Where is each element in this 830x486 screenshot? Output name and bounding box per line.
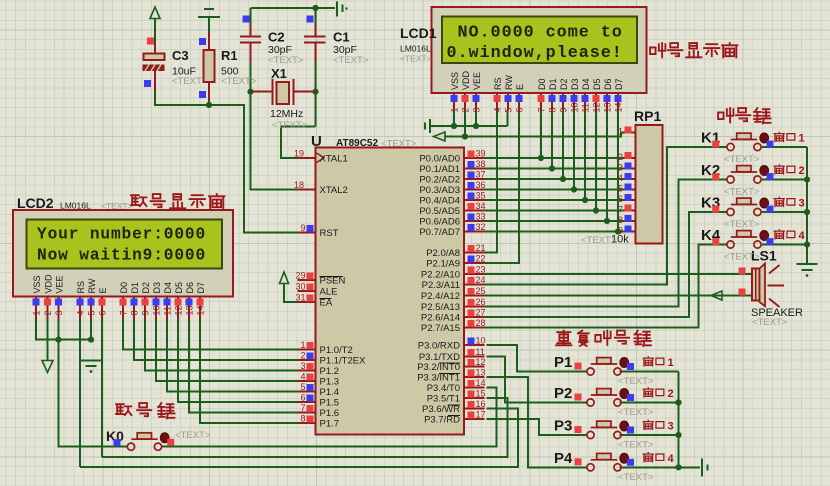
svg-text:D7: D7 [614, 78, 624, 90]
svg-text:13: 13 [185, 305, 195, 315]
svg-text:9: 9 [300, 223, 305, 233]
svg-text:<TEXT>: <TEXT> [101, 201, 133, 211]
svg-text:C1: C1 [333, 30, 350, 45]
svg-text:XTAL2: XTAL2 [320, 185, 348, 196]
svg-text:6: 6 [98, 310, 108, 315]
svg-text:AT89C52: AT89C52 [336, 138, 378, 149]
svg-text:P2.3/A11: P2.3/A11 [422, 280, 460, 291]
svg-text:1: 1 [799, 133, 805, 145]
svg-text:P0.4/AD4: P0.4/AD4 [419, 196, 460, 207]
svg-text:P1.5: P1.5 [320, 398, 340, 409]
svg-text:NO.0000 come to: NO.0000 come to [458, 24, 623, 43]
svg-text:D1: D1 [548, 78, 558, 90]
svg-text:P1.2: P1.2 [320, 366, 340, 377]
svg-text:22: 22 [476, 254, 486, 264]
svg-text:13: 13 [603, 102, 613, 112]
svg-text:P0.2/AD2: P0.2/AD2 [419, 175, 460, 186]
svg-text:11: 11 [581, 103, 591, 112]
svg-text:<TEXT>: <TEXT> [618, 472, 654, 483]
svg-text:1: 1 [668, 357, 674, 369]
svg-text:14: 14 [614, 102, 624, 112]
svg-text:EA: EA [320, 298, 333, 309]
svg-text:P2.0/A8: P2.0/A8 [426, 248, 460, 259]
svg-text:39: 39 [476, 149, 486, 159]
svg-text:10: 10 [152, 305, 162, 315]
svg-text:D6: D6 [603, 78, 613, 90]
svg-text:12MHz: 12MHz [270, 108, 303, 120]
svg-text:RS: RS [76, 281, 86, 294]
svg-text:9: 9 [559, 107, 569, 112]
svg-text:<TEXT>: <TEXT> [581, 235, 617, 246]
svg-text:4: 4 [300, 372, 305, 382]
svg-text:U: U [311, 133, 322, 150]
svg-text:P2.7/A15: P2.7/A15 [421, 323, 460, 334]
svg-text:28: 28 [476, 318, 486, 328]
svg-text:VDD: VDD [461, 70, 471, 90]
svg-text:11: 11 [476, 347, 485, 357]
svg-text:E: E [98, 287, 108, 293]
svg-text:LCD1: LCD1 [400, 25, 437, 41]
svg-text:P1.0/T2: P1.0/T2 [320, 345, 353, 356]
svg-text:P0.3/AD3: P0.3/AD3 [419, 185, 460, 196]
svg-text:P1.1/T2EX: P1.1/T2EX [320, 356, 367, 367]
svg-text:<TEXT>: <TEXT> [724, 219, 760, 230]
svg-text:D4: D4 [581, 78, 591, 90]
svg-text:0.window,please!: 0.window,please! [447, 44, 623, 63]
svg-text:25: 25 [476, 286, 486, 296]
svg-text:2: 2 [618, 152, 623, 162]
svg-text:3: 3 [799, 198, 805, 210]
svg-text:Your number:0000: Your number:0000 [37, 226, 206, 244]
svg-text:VEE: VEE [472, 72, 482, 90]
svg-text:31: 31 [295, 293, 305, 303]
svg-text:LCD2: LCD2 [17, 195, 54, 211]
svg-text:18: 18 [294, 180, 304, 190]
svg-text:<TEXT>: <TEXT> [268, 55, 304, 66]
svg-text:D4: D4 [163, 282, 173, 294]
svg-text:21: 21 [476, 243, 486, 253]
svg-text:<TEXT>: <TEXT> [381, 139, 417, 150]
svg-text:VSS: VSS [450, 72, 460, 90]
svg-text:7: 7 [300, 403, 305, 413]
svg-text:1: 1 [32, 310, 42, 315]
svg-text:P1.3: P1.3 [320, 377, 340, 388]
svg-text:4: 4 [799, 230, 806, 242]
svg-text:P1: P1 [554, 354, 572, 371]
svg-text:3: 3 [54, 310, 64, 315]
svg-text:D3: D3 [570, 78, 580, 90]
svg-text:P4: P4 [554, 450, 573, 467]
svg-text:P2.1/A9: P2.1/A9 [426, 259, 460, 270]
svg-text:Now waitin9:0000: Now waitin9:0000 [37, 247, 206, 265]
svg-text:D0: D0 [537, 78, 547, 90]
svg-text:<TEXT>: <TEXT> [618, 407, 654, 418]
svg-text:5: 5 [87, 310, 97, 315]
svg-text:<TEXT>: <TEXT> [221, 76, 257, 87]
svg-text:D5: D5 [174, 282, 184, 294]
svg-text:33: 33 [476, 212, 486, 222]
svg-text:12: 12 [592, 102, 602, 112]
svg-text:4: 4 [618, 173, 623, 183]
svg-text:29: 29 [295, 271, 305, 281]
svg-text:12: 12 [476, 357, 486, 367]
svg-text:P3.7/RD: P3.7/RD [424, 415, 460, 426]
svg-text:PSEN: PSEN [320, 276, 346, 287]
svg-text:36: 36 [476, 180, 486, 190]
svg-text:P1.6: P1.6 [320, 408, 340, 419]
svg-text:VEE: VEE [55, 275, 65, 293]
svg-text:10: 10 [570, 102, 580, 112]
svg-text:2: 2 [43, 310, 53, 315]
svg-text:<TEXT>: <TEXT> [618, 440, 654, 451]
svg-text:1: 1 [618, 127, 623, 137]
svg-text:14: 14 [196, 305, 206, 315]
svg-text:37: 37 [476, 170, 486, 180]
svg-text:LM016L: LM016L [400, 44, 431, 54]
svg-text:13: 13 [476, 368, 486, 378]
svg-text:6: 6 [618, 194, 623, 204]
svg-text:P2.6/A14: P2.6/A14 [421, 313, 460, 324]
svg-text:<TEXT>: <TEXT> [400, 54, 432, 64]
svg-text:P0.7/AD7: P0.7/AD7 [419, 227, 460, 238]
svg-text:D6: D6 [185, 282, 195, 294]
svg-text:2: 2 [300, 351, 305, 361]
svg-text:RS: RS [493, 77, 503, 90]
svg-text:P0.0/AD0: P0.0/AD0 [419, 154, 460, 165]
svg-text:D2: D2 [141, 282, 151, 294]
svg-text:30: 30 [295, 282, 305, 292]
svg-text:2: 2 [668, 388, 674, 400]
svg-text:P3.4/T0: P3.4/T0 [427, 383, 460, 394]
svg-text:19: 19 [294, 148, 304, 158]
svg-text:R1: R1 [221, 48, 238, 63]
svg-text:2: 2 [799, 165, 805, 177]
svg-text:RST: RST [320, 228, 339, 239]
svg-text:14: 14 [476, 378, 486, 388]
svg-text:7: 7 [119, 310, 129, 315]
svg-text:5: 5 [300, 382, 305, 392]
svg-text:16: 16 [476, 399, 486, 409]
svg-text:RP1: RP1 [634, 108, 661, 124]
svg-text:7: 7 [618, 205, 623, 215]
svg-text:3: 3 [300, 361, 305, 371]
svg-text:C3: C3 [172, 48, 189, 63]
svg-text:10: 10 [476, 336, 486, 346]
svg-text:1: 1 [450, 107, 460, 112]
svg-text:27: 27 [476, 308, 486, 318]
svg-text:D2: D2 [559, 78, 569, 90]
svg-text:8: 8 [130, 310, 140, 315]
svg-text:LM016L: LM016L [60, 201, 91, 211]
svg-text:D1: D1 [130, 282, 140, 294]
svg-text:XTAL1: XTAL1 [320, 153, 348, 164]
svg-text:35: 35 [476, 191, 486, 201]
svg-text:P3.2/INT0: P3.2/INT0 [417, 362, 460, 373]
svg-text:VSS: VSS [32, 275, 42, 293]
svg-text:3: 3 [668, 421, 674, 433]
svg-text:D7: D7 [196, 282, 206, 294]
svg-text:P2.2/A10: P2.2/A10 [421, 270, 460, 281]
svg-text:7: 7 [537, 107, 547, 112]
svg-text:2: 2 [461, 107, 471, 112]
svg-text:P0.6/AD6: P0.6/AD6 [419, 217, 460, 228]
svg-text:17: 17 [476, 410, 486, 420]
svg-text:D3: D3 [152, 282, 162, 294]
svg-text:C2: C2 [268, 30, 285, 45]
svg-text:P3.3/INT1: P3.3/INT1 [417, 373, 460, 384]
svg-text:8: 8 [548, 107, 558, 112]
svg-text:34: 34 [476, 201, 486, 211]
svg-text:P0.5/AD5: P0.5/AD5 [419, 206, 460, 217]
svg-text:P2.5/A13: P2.5/A13 [421, 302, 460, 313]
svg-text:P3.5/T1: P3.5/T1 [427, 394, 460, 405]
svg-text:<TEXT>: <TEXT> [618, 376, 654, 387]
svg-text:<TEXT>: <TEXT> [724, 252, 760, 263]
svg-text:6: 6 [515, 107, 525, 112]
svg-text:<TEXT>: <TEXT> [752, 317, 788, 328]
svg-text:P0.1/AD1: P0.1/AD1 [419, 164, 460, 175]
svg-text:4: 4 [76, 310, 86, 315]
svg-text:24: 24 [476, 275, 486, 285]
svg-text:E: E [515, 84, 525, 90]
svg-text:8: 8 [618, 215, 623, 225]
svg-text:9: 9 [141, 310, 151, 315]
svg-text:X1: X1 [271, 66, 287, 81]
svg-text:23: 23 [476, 265, 486, 275]
svg-text:P2: P2 [554, 385, 572, 402]
svg-text:RW: RW [87, 278, 97, 293]
svg-text:8: 8 [300, 414, 305, 424]
svg-text:P1.4: P1.4 [320, 387, 340, 398]
svg-text:5: 5 [618, 184, 623, 194]
svg-text:D0: D0 [119, 282, 129, 294]
svg-text:<TEXT>: <TEXT> [724, 187, 760, 198]
svg-text:1: 1 [300, 340, 305, 350]
svg-text:<TEXT>: <TEXT> [172, 76, 208, 87]
svg-text:11: 11 [163, 306, 173, 315]
svg-text:P3.6/WR: P3.6/WR [422, 404, 460, 415]
svg-text:<TEXT>: <TEXT> [333, 55, 369, 66]
svg-text:3: 3 [472, 107, 482, 112]
svg-text:38: 38 [476, 159, 486, 169]
svg-text:<TEXT>: <TEXT> [175, 430, 211, 441]
svg-text:P2.4/A12: P2.4/A12 [421, 291, 460, 302]
svg-text:<TEXT>: <TEXT> [724, 154, 760, 165]
svg-text:6: 6 [300, 393, 305, 403]
svg-text:26: 26 [476, 297, 486, 307]
svg-text:D5: D5 [592, 78, 602, 90]
svg-text:4: 4 [668, 453, 675, 465]
svg-text:15: 15 [476, 389, 486, 399]
svg-text:5: 5 [504, 107, 514, 112]
svg-text:VDD: VDD [44, 274, 54, 294]
svg-text:RW: RW [504, 75, 514, 90]
svg-text:ALE: ALE [320, 287, 338, 298]
svg-text:12: 12 [174, 305, 184, 315]
svg-text:32: 32 [476, 222, 486, 232]
svg-text:P1.7: P1.7 [320, 419, 340, 430]
svg-text:<TEXT>: <TEXT> [272, 120, 308, 131]
svg-text:P3: P3 [554, 418, 572, 435]
svg-text:P3.0/RXD: P3.0/RXD [418, 341, 460, 352]
svg-text:3: 3 [618, 163, 623, 173]
svg-text:4: 4 [493, 107, 503, 112]
